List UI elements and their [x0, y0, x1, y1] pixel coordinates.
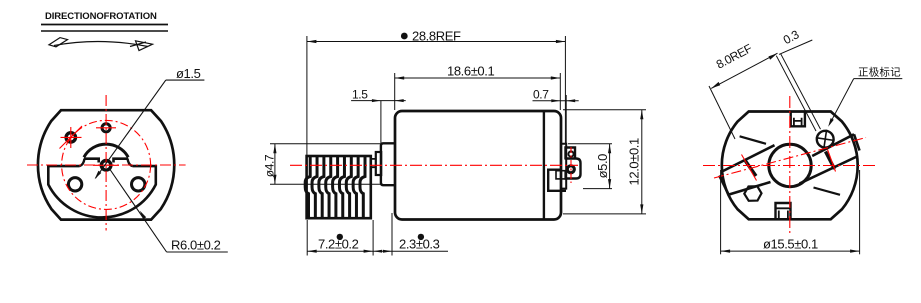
middle view red centerline	[290, 164, 578, 166]
hole slash top-left	[60, 126, 83, 149]
left view red centerlines	[27, 95, 186, 231]
weight edge lower-right	[814, 188, 841, 195]
band upper-left line	[722, 145, 775, 171]
dome shoulder left	[84, 159, 99, 163]
central circle	[769, 144, 811, 186]
right view red lines	[703, 96, 877, 234]
svg-text:R6.0±0.2: R6.0±0.2	[171, 238, 221, 253]
terminal step bracket	[548, 170, 566, 191]
dim 12.0	[563, 110, 646, 214]
weight mark left	[746, 161, 757, 176]
center shaft hole	[101, 161, 111, 171]
leader dia 1.5	[96, 80, 205, 178]
worm thread stripes	[305, 156, 365, 218]
vertical centerline	[789, 96, 791, 234]
dim dia5.0	[568, 144, 612, 189]
band left end cap	[719, 176, 728, 195]
dim dia4.7	[270, 144, 381, 185]
horizontal centerline	[703, 165, 877, 167]
endcap boss dia5	[561, 144, 566, 189]
rotation arrow left tail parallelogram	[49, 38, 68, 47]
polarity cross v	[824, 130, 827, 149]
bottom tab	[776, 203, 791, 219]
shaft segment	[371, 159, 376, 167]
front bearing boss	[381, 143, 395, 185]
polarity cross h	[816, 138, 835, 141]
svg-text:正极标记: 正极标记	[858, 66, 901, 79]
dim 0.3 rotated	[776, 40, 820, 131]
band upper-right line	[812, 134, 854, 156]
hole crosshair top-left v	[70, 127, 72, 148]
svg-text:ø1.5: ø1.5	[176, 66, 201, 81]
svg-text:ø4.7: ø4.7	[263, 154, 277, 177]
dim 1.5	[351, 101, 406, 143]
can/endcap boundary	[543, 111, 545, 220]
header: DIRECTION OF ROTATION	[45, 11, 157, 22]
svg-text:18.6±0.1: 18.6±0.1	[447, 64, 494, 79]
band axis	[714, 138, 866, 179]
dim 8.0REF rotated	[709, 53, 778, 139]
mark slash right	[828, 150, 836, 172]
terminal upper tab	[566, 148, 576, 160]
plate top fillet left	[80, 159, 85, 166]
left view outline	[38, 110, 174, 219]
dome arc	[84, 144, 128, 157]
R6.0 arrowhead	[140, 211, 146, 220]
terminal blob	[565, 159, 581, 179]
weight mark right	[826, 152, 835, 170]
polarity mark circle	[817, 131, 834, 148]
svg-text:0.7: 0.7	[533, 88, 549, 102]
svg-text:28.8REF: 28.8REF	[412, 29, 461, 44]
label zhengji biaoji	[830, 79, 903, 125]
rotation arrow right head triangle	[136, 41, 153, 51]
terminal eyelet upper	[568, 151, 573, 156]
svg-text:1.5: 1.5	[352, 88, 368, 102]
text R6.0	[171, 238, 221, 253]
motor body	[395, 111, 561, 220]
vertical centerline	[105, 95, 107, 231]
rotation arrow curve	[54, 41, 148, 46]
shaft washer	[376, 152, 381, 175]
svg-text:ø5.0: ø5.0	[595, 154, 610, 179]
hole top-left	[66, 133, 75, 142]
weight edge upper-left	[740, 136, 766, 144]
hole crosshair top-left h	[61, 136, 82, 138]
band lower-right line	[800, 156, 859, 184]
dim dia15.5	[721, 170, 860, 254]
dims 7.2 / 2.3 bottom	[307, 213, 448, 256]
header underline 2	[41, 30, 168, 32]
svg-text:12.0±0.1: 12.0±0.1	[627, 138, 642, 185]
bottom tab inner	[776, 208, 791, 219]
top tab notch	[794, 118, 802, 127]
worm outer rect	[307, 156, 371, 218]
dim 18.6	[395, 73, 561, 110]
text dia 1.5	[176, 66, 201, 81]
svg-text:ø15.5±0.1: ø15.5±0.1	[763, 237, 818, 252]
mark slash left	[742, 155, 757, 181]
leader R6.0	[110, 170, 228, 253]
bolt circle	[62, 120, 151, 209]
right view outline	[722, 112, 858, 220]
plate top fillet right	[128, 159, 133, 166]
dim 0.7	[533, 95, 579, 144]
dome shoulder right	[114, 159, 129, 163]
terminal eyelet lower	[567, 166, 574, 173]
svg-text:DIRECTIONOFROTATION: DIRECTIONOFROTATION	[45, 11, 157, 22]
band lower-left line	[729, 182, 771, 195]
hole top-center	[102, 124, 110, 132]
header underline 1	[41, 24, 168, 26]
leader dia1.5 arrowhead	[95, 171, 102, 179]
weight plate	[48, 166, 156, 217]
band right end cap	[854, 134, 860, 150]
hole crosshair top-center h	[96, 127, 116, 129]
center hole crosshair h	[93, 164, 119, 166]
svg-text:2.3±0.3: 2.3±0.3	[399, 237, 440, 252]
dim 28.8REF	[307, 36, 566, 155]
horizontal centerline	[27, 164, 186, 166]
plate hole left	[68, 178, 81, 191]
plate hole right	[132, 178, 145, 191]
rotation arrow right tick	[130, 42, 146, 47]
svg-text:7.2±0.2: 7.2±0.2	[318, 237, 359, 252]
top tab	[791, 112, 805, 127]
hexagon hole	[744, 186, 761, 201]
